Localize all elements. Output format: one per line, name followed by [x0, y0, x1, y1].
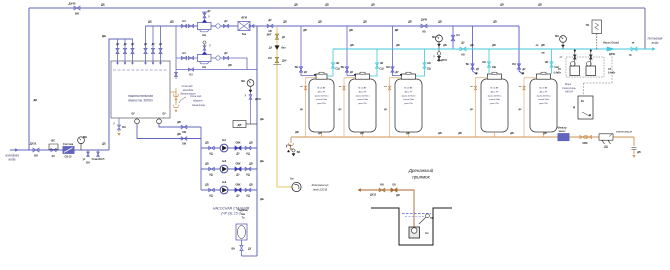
vessel FV2 control head — [356, 74, 370, 79]
svg-text:ДБ: ДБ — [318, 132, 322, 135]
svg-text:НО: НО — [422, 31, 426, 34]
svg-text:ДУ: ДУ — [476, 68, 480, 71]
svg-text:Слив над: Слив над — [182, 85, 193, 88]
wire: compressed air line yellow — [277, 27, 292, 187]
svg-text:регв 70л: регв 70л — [490, 103, 499, 105]
svg-text:вода: вода — [9, 158, 16, 162]
svg-text:ДУ: ДУ — [116, 43, 120, 46]
cyan header valve x=463 — [460, 47, 466, 51]
wire: cold water inlet line y=150 — [10, 149, 109, 151]
svg-text:Авто ТТ: Авто ТТ — [318, 90, 327, 93]
svg-text:ОБК: ОБК — [235, 184, 241, 187]
svg-text:ДУ: ДУ — [236, 195, 240, 198]
svg-text:ДБ: ДБ — [205, 142, 209, 145]
svg-text:ПП: ПП — [430, 217, 434, 220]
valve VB1 on bypass header — [74, 6, 80, 10]
svg-text:ДБ: ДБ — [260, 117, 264, 121]
svg-text:регв 70л: регв 70л — [404, 103, 413, 105]
svg-text:НД: НД — [246, 195, 250, 198]
wire: bypass riser to outlet x=645 — [644, 8, 646, 49]
tank overflow pipe — [170, 92, 176, 105]
svg-text:В 1,5 ВТ: В 1,5 ВТ — [405, 88, 414, 90]
tank water level dashes — [113, 69, 168, 71]
filter vessel FV1 — [309, 79, 334, 132]
wire: capsule branch 2 y=56 — [176, 58, 247, 70]
wire: raw-water bypass top header y=8 left — [29, 7, 280, 9]
svg-text:ДУ40: ДУ40 — [69, 2, 76, 6]
drain box UZV — [599, 134, 613, 140]
svg-text:вода: вода — [652, 41, 659, 45]
header valve NO x=270 — [267, 24, 273, 27]
suction valve pump 3 — [209, 188, 215, 191]
svg-text:кя: кя — [632, 42, 635, 45]
svg-text:Гидроак.: Гидроак. — [238, 209, 249, 212]
vessel outlet riser cyan — [327, 49, 333, 76]
svg-text:ДУ15: ДУ15 — [255, 98, 262, 101]
svg-text:солев 0,4м: солев 0,4м — [316, 98, 327, 101]
svg-text:ДБ: ДБ — [228, 64, 232, 67]
vessel FV4 control head — [488, 74, 502, 79]
svg-text:ДБ: ДБ — [325, 4, 329, 7]
svg-text:Нс: Нс — [425, 231, 429, 235]
svg-text:0,4кВт: 0,4кВт — [554, 72, 562, 75]
float switch — [419, 217, 426, 224]
svg-text:ДУ: ДУ — [124, 43, 128, 46]
vessel FV5 control head — [537, 74, 551, 79]
wire: main process header y=26 — [146, 25, 520, 27]
vessel drain drop orange — [524, 78, 537, 137]
dosing injection line 2 — [590, 49, 592, 66]
vessel FV5 bottom stub — [543, 132, 545, 137]
svg-text:ДБ: ДБ — [170, 20, 174, 24]
svg-text:Ящик: Ящик — [564, 83, 572, 86]
svg-text:сл: сл — [470, 86, 473, 88]
svg-text:НО: НО — [482, 61, 486, 64]
svg-text:ДБ: ДБ — [177, 121, 181, 124]
svg-text:накопительная: накопительная — [128, 94, 153, 98]
svg-text:Слив ВН-П: Слив ВН-П — [92, 158, 105, 161]
arrow pit discharge — [358, 189, 361, 192]
svg-text:ОЖ: ОЖ — [182, 131, 187, 134]
svg-text:ДУ: ДУ — [282, 37, 286, 39]
tank inlet drop A1 with valve — [117, 39, 119, 63]
pit walls — [371, 208, 452, 245]
svg-text:ДК: ДК — [470, 109, 474, 111]
wire: tank outlet line 2 y=138.5 — [137, 124, 201, 139]
svg-text:ВН: ВН — [34, 154, 38, 158]
svg-text:ФГМ: ФГМ — [241, 17, 247, 20]
svg-text:у: у — [208, 15, 210, 18]
svg-text:5мк: 5мк — [242, 33, 247, 36]
svg-text:у: у — [209, 44, 211, 47]
wire: riser to tank manifold A x=109 — [109, 39, 133, 150]
tank inlet drop A2 with valve — [124, 39, 126, 63]
svg-text:ДБ: ДБ — [543, 132, 547, 135]
svg-text:ДУ: ДУ — [224, 52, 228, 55]
arrow treated water outlet — [652, 48, 655, 51]
capsule pump unit y=58 — [198, 54, 212, 61]
svg-text:ВН: ВН — [232, 248, 236, 251]
svg-text:ДБ: ДБ — [510, 132, 514, 135]
svg-text:ДУ: ДУ — [304, 71, 308, 74]
svg-text:у: у — [113, 122, 115, 125]
svg-text:СШ: СШ — [335, 68, 340, 71]
svg-text:зерно 0,8 Н-1л: зерно 0,8 Н-1л — [487, 95, 502, 97]
valve V1 cold inlet — [33, 148, 39, 152]
vessel outlet riser cyan — [370, 49, 377, 76]
svg-text:7л: 7л — [242, 217, 245, 220]
svg-text:ВН: ВН — [380, 184, 384, 187]
svg-text:Вкл: Вкл — [282, 48, 287, 50]
svg-text:Авто ТТ: Авто ТТ — [359, 90, 368, 93]
svg-text:№3: №3 — [222, 180, 227, 184]
vessel FV2 bottom stub — [362, 132, 364, 137]
svg-text:ДБ: ДБ — [295, 131, 299, 134]
svg-text:(ЧР (3); 15-3: (ЧР (3); 15-3 — [221, 212, 241, 216]
svg-text:№2: №2 — [222, 159, 227, 163]
dosing pump unit 2 — [586, 66, 596, 76]
pit water level — [402, 213, 431, 215]
svg-text:сл: сл — [384, 86, 387, 88]
drain funnel near capsule station — [175, 88, 177, 94]
capsule pump unit y=26 — [198, 22, 212, 29]
air valve 2 on air line — [275, 57, 278, 62]
svg-text:ДБ: ДБ — [102, 142, 106, 146]
svg-text:НО: НО — [461, 54, 465, 57]
svg-text:ДБ: ДБ — [363, 21, 367, 24]
svg-text:ДД: ДД — [604, 146, 608, 149]
svg-text:ВНТ: ВНТ — [267, 35, 272, 37]
dosing injection line 1 — [574, 49, 576, 66]
svg-text:ВН: ВН — [268, 58, 272, 60]
svg-text:ДУ: ДУ — [269, 48, 273, 50]
wire: pit discharge pipe — [359, 190, 414, 227]
svg-text:ДБ: ДБ — [205, 163, 209, 166]
svg-text:Насос Grund: Насос Grund — [603, 42, 619, 45]
strainer F1 — [49, 144, 58, 149]
svg-text:ДБ: ДБ — [371, 4, 375, 7]
svg-text:ДБ: ДБ — [294, 4, 298, 7]
drain stub DV2 — [97, 150, 99, 156]
svg-text:ДБ: ДБ — [283, 21, 287, 24]
wire: pump suction header x=201 — [200, 127, 202, 190]
pump P1 — [220, 144, 228, 152]
svg-text:ДУ15: ДУ15 — [441, 59, 448, 62]
svg-text:ДБ: ДБ — [438, 132, 442, 135]
svg-text:НЦ: НЦ — [202, 34, 206, 37]
svg-text:ДУ: ДУ — [395, 71, 399, 74]
svg-text:ДУ40: ДУ40 — [609, 53, 616, 56]
svg-text:НЗ: НЗ — [182, 52, 186, 55]
drain discharge funnel left end — [290, 137, 292, 143]
svg-text:ВН: ВН — [466, 63, 470, 66]
svg-text:НД: НД — [246, 153, 250, 156]
svg-text:ВН: ВН — [386, 66, 390, 69]
sump pump SP — [409, 227, 420, 238]
svg-text:НО: НО — [336, 62, 340, 65]
svg-text:НО: НО — [545, 61, 549, 64]
svg-text:ДБ: ДБ — [260, 159, 264, 163]
svg-text:ОЖ: ОЖ — [182, 143, 187, 146]
svg-text:ВН: ВН — [512, 63, 516, 66]
svg-text:ДБ: ДБ — [458, 132, 462, 135]
svg-text:ДБ: ДБ — [102, 34, 106, 38]
svg-text:ДК: ДК — [384, 109, 388, 111]
svg-text:ЛК: ЛК — [536, 45, 540, 47]
svg-text:ДБ: ДБ — [538, 4, 542, 7]
discharge valve pump 2 — [245, 167, 251, 170]
filter vessel FV4 — [481, 79, 508, 132]
svg-text:Канализац.: Канализац. — [192, 103, 206, 107]
svg-text:НО: НО — [380, 62, 384, 65]
svg-text:МН: МН — [432, 36, 436, 39]
drain valve pair — [580, 135, 585, 138]
wire: raw-water bypass top header y=8 right — [280, 7, 645, 9]
svg-text:сл: сл — [339, 86, 342, 88]
svg-text:канализация: канализация — [616, 131, 632, 134]
vessel FV3 bottom stub — [408, 132, 410, 137]
dosing station dashed enclosure — [566, 57, 604, 77]
svg-text:регв 70л: регв 70л — [539, 103, 548, 105]
svg-text:ДБ: ДБ — [493, 21, 497, 24]
UF filter box on header — [238, 22, 250, 31]
svg-text:МН: МН — [83, 135, 87, 139]
svg-text:СТ: СТ — [560, 57, 564, 59]
vessel FV1 bottom stub — [321, 132, 323, 137]
svg-text:ВН: ВН — [86, 162, 90, 165]
svg-text:бак: бак — [241, 213, 246, 216]
svg-text:ДБ: ДБ — [492, 44, 496, 47]
svg-text:регв 70л: регв 70л — [317, 103, 326, 105]
svg-text:ДК: ДК — [300, 109, 304, 111]
vessel 4 inlet drop — [473, 26, 477, 74]
svg-text:ОБК: ОБК — [235, 142, 241, 145]
svg-text:зерно 0,8 Н-1л: зерно 0,8 Н-1л — [536, 95, 551, 97]
svg-text:ДУ: ДУ — [224, 20, 228, 23]
svg-text:Д: Д — [573, 105, 575, 109]
air vent stack above capsule 1 — [202, 12, 207, 20]
svg-text:В 1,5 ВТ: В 1,5 ВТ — [318, 88, 327, 90]
svg-text:СВ-15: СВ-15 — [65, 156, 73, 159]
tank level sensor LS1 — [136, 118, 138, 119]
final valve cyan x=634 — [631, 47, 637, 51]
vacuum breaker — [292, 149, 295, 152]
tank drain valve bottom-left — [118, 118, 120, 125]
svg-text:у: у — [245, 94, 247, 97]
wire: drain header y=137 — [291, 136, 634, 138]
dashed control line dosing — [584, 52, 613, 96]
vessel drain drop orange — [476, 78, 489, 137]
svg-text:ДБ: ДБ — [500, 4, 504, 7]
gauge and sampler x=439 — [438, 34, 440, 62]
tank level sensor LS2 — [158, 118, 160, 119]
svg-text:ДУ: ДУ — [144, 43, 148, 46]
svg-text:ДК: ДК — [519, 109, 523, 111]
svg-text:НД: НД — [209, 153, 213, 156]
wire: capsule left manifold x=176 — [175, 26, 177, 70]
svg-text:ДУ: ДУ — [248, 248, 252, 251]
svg-text:ДБ: ДБ — [249, 184, 253, 187]
svg-text:ДУ: ДУ — [350, 71, 354, 74]
filter vessel FV2 — [349, 79, 376, 132]
svg-text:В 1,5 ВТ: В 1,5 ВТ — [540, 88, 549, 90]
svg-text:Авто ТТ: Авто ТТ — [405, 90, 414, 93]
svg-text:солев 0,4м: солев 0,4м — [489, 98, 500, 101]
svg-text:зерно 0,8 Н-1л: зерно 0,8 Н-1л — [401, 95, 416, 97]
svg-text:зд: зд — [629, 54, 632, 57]
svg-text:ДБ: ДБ — [249, 163, 253, 166]
wire: pump branch 2 — [201, 168, 257, 170]
svg-text:зерно 0,8 Н-1л: зерно 0,8 Н-1л — [314, 95, 329, 97]
svg-text:ДБ: ДБ — [637, 151, 641, 154]
svg-text:ДУ: ДУ — [268, 19, 272, 22]
water meter WM (filled) — [63, 147, 74, 154]
pump P2 — [220, 165, 228, 173]
svg-text:НД: НД — [209, 195, 213, 198]
wire: treated water header cyan y=49 — [333, 48, 652, 50]
capsule pump outlet fittings y=26 — [216, 24, 220, 28]
vessel FV1 control head — [316, 74, 327, 79]
vessel inlet drop with valve — [301, 26, 316, 76]
svg-text:ДБ: ДБ — [249, 142, 253, 145]
svg-text:ДУ: ДУ — [159, 43, 163, 46]
svg-text:ДБ: ДБ — [443, 44, 447, 47]
UV sterilizer box — [592, 20, 602, 34]
gauge PG3 x=563 — [562, 43, 564, 49]
svg-text:ДБ: ДБ — [177, 133, 181, 136]
svg-text:ДУ6: ДУ6 — [282, 61, 287, 63]
vessel drain drop orange — [390, 78, 403, 137]
wire: pump discharge header x=257 — [256, 26, 258, 256]
membrane expansion tank MT — [242, 255, 258, 257]
vessel 5 outlet riser cyan — [551, 49, 553, 74]
svg-text:Авто ТТ: Авто ТТ — [491, 90, 500, 93]
svg-text:приямок: приямок — [412, 175, 430, 180]
drain end drop with air gap — [633, 137, 635, 146]
pressure switch box DT — [233, 121, 246, 128]
svg-text:В 1,5 ВТ: В 1,5 ВТ — [359, 88, 368, 90]
vessel FV4 bottom stub — [494, 132, 496, 137]
svg-text:ВН: ВН — [341, 66, 345, 69]
vessel inlet drop with valve — [347, 26, 356, 76]
chemical solution tank — [578, 96, 593, 119]
svg-text:АВ: АВ — [541, 52, 545, 55]
suction valve pump 2 — [209, 167, 215, 170]
svg-text:ДБ: ДБ — [260, 197, 264, 201]
svg-text:ДБ: ДБ — [541, 44, 545, 47]
pit discharge valve — [379, 188, 385, 191]
tank inlet drop A3 with valve — [132, 39, 134, 63]
svg-text:ДБ: ДБ — [34, 99, 38, 102]
tank inlet drop B2 with valve — [152, 26, 154, 63]
svg-text:обратн.: обратн. — [193, 99, 203, 103]
svg-text:ДУ: ДУ — [461, 42, 465, 45]
air check valve — [275, 46, 279, 50]
svg-text:ДТ: ДТ — [238, 123, 242, 127]
svg-text:ДБ: ДБ — [350, 44, 354, 47]
capsule pump line y=58 valves — [181, 56, 186, 59]
vessel inlet drop with valve — [393, 26, 403, 76]
svg-text:НЗ: НЗ — [189, 74, 193, 77]
valve after filter box — [249, 25, 254, 28]
capsule pump outlet fittings y=58 — [216, 56, 220, 60]
svg-text:СУ: СУ — [558, 68, 562, 71]
svg-text:ДБ: ДБ — [303, 29, 307, 32]
svg-text:ДУ: ДУ — [236, 153, 240, 156]
svg-text:МН: МН — [555, 35, 559, 38]
svg-text:ДБ: ДБ — [101, 3, 105, 7]
svg-text:ВН: ВН — [122, 126, 126, 129]
filter vessel FV5 — [530, 79, 557, 132]
svg-text:ВО: ВО — [297, 151, 301, 154]
svg-text:ОБК: ОБК — [235, 163, 241, 166]
svg-text:Кп: Кп — [291, 178, 294, 181]
dosing pump unit 1 — [570, 66, 580, 76]
wire: pump branch 3 — [201, 189, 257, 191]
svg-text:ДУ: ДУ — [131, 43, 135, 46]
vessel drain drop orange — [344, 78, 356, 137]
svg-text:ДБ: ДБ — [396, 44, 400, 47]
svg-text:ДБ: ДБ — [438, 21, 442, 24]
pressure gauge on header PG2 — [250, 86, 252, 124]
svg-text:ФС: ФС — [51, 139, 55, 143]
svg-text:ДБ: ДБ — [470, 44, 474, 47]
air valve 1 on air line — [275, 34, 278, 39]
svg-text:Авто ТТ: Авто ТТ — [540, 90, 549, 93]
svg-text:СУ: СУ — [608, 68, 612, 71]
svg-text:НЦ: НЦ — [202, 66, 206, 69]
svg-text:ДБ: ДБ — [349, 29, 353, 32]
vessel 4 outlet riser cyan — [488, 49, 490, 74]
svg-text:ДБ: ДБ — [406, 132, 410, 135]
svg-text:регв 70л: регв 70л — [358, 103, 367, 105]
svg-text:НВ ОН: НВ ОН — [565, 91, 573, 94]
svg-text:Компрессор: Компрессор — [312, 183, 329, 187]
filter vessel FV3 — [395, 79, 422, 132]
svg-text:НД: НД — [246, 174, 250, 177]
svg-text:ДУ40: ДУ40 — [421, 19, 428, 22]
drain filter blue box — [558, 134, 569, 141]
pit discharge check valve — [391, 188, 397, 192]
tank inlet drop B3 with valve — [160, 26, 162, 63]
svg-text:жёлобом: жёлобом — [182, 89, 194, 92]
svg-text:зерно 0,8 Н-1л: зерно 0,8 Н-1л — [355, 95, 370, 97]
svg-text:ДУ: ДУ — [207, 10, 211, 13]
svg-text:СШ: СШ — [379, 68, 384, 71]
tank inlet drop B1 with valve — [145, 26, 147, 63]
svg-text:ДК: ДК — [339, 109, 343, 111]
svg-text:НО: НО — [427, 62, 431, 65]
svg-text:1/2: 1/2 — [51, 155, 55, 158]
svg-text:СШ: СШ — [492, 66, 497, 69]
valve on outlet 1 — [181, 125, 187, 128]
svg-text:ёмкость 3000л: ёмкость 3000л — [128, 99, 152, 103]
check valve pump 1 — [235, 146, 241, 150]
valve on outlet 2 — [181, 137, 187, 140]
svg-text:у: у — [433, 55, 435, 58]
vessel 5 inlet drop header end — [519, 26, 523, 74]
suction valve pump 1 — [209, 146, 215, 149]
svg-text:ДБ: ДБ — [148, 20, 152, 24]
wire: tank outlet line 1 y=127 — [159, 124, 201, 127]
vessel drain drop orange — [306, 78, 317, 137]
wire: cold water inlet riser x=29 — [28, 8, 30, 150]
svg-text:солев 0,4м: солев 0,4м — [357, 98, 368, 101]
svg-text:ДБ: ДБ — [396, 194, 400, 197]
vessel outlet riser cyan — [416, 49, 425, 76]
svg-text:солев 0,4м: солев 0,4м — [403, 98, 414, 101]
wire: bypass branch y=69 — [176, 69, 257, 71]
